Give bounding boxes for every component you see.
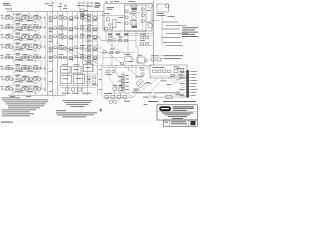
ground row 2 input [13, 31, 15, 33]
supply resistor R86 [163, 70, 166, 73]
resistor R34 [25, 46, 28, 48]
label V29 designator [16, 74, 21, 77]
label row 1 mid value C [80, 14, 85, 17]
label terminal pin 9 left [180, 94, 185, 97]
wire row 3 grid drop [13, 37, 15, 40]
label terminal strip left [177, 67, 185, 70]
label row 3 bias value [27, 38, 33, 41]
resistor R30 [87, 36, 90, 38]
interlock box upper B [119, 87, 123, 90]
wire row 7 upper rail [8, 75, 30, 77]
triode V33 [113, 38, 116, 41]
resistor R66 [88, 20, 91, 22]
wire row 3 mid stub B [74, 34, 76, 37]
wire psu drop x148 [147, 66, 149, 71]
wire output angle [133, 93, 138, 98]
wire switch row [60, 87, 96, 89]
wire ladder rung y15.5 [83, 15, 98, 17]
label row 5 mid value A [59, 53, 64, 56]
wire ladder rung y31.0 [83, 30, 98, 32]
ground row 6 input [13, 72, 15, 74]
label supply extra [179, 74, 184, 77]
wire output drop x107 [106, 99, 108, 101]
label row 5 mid value C [80, 53, 85, 56]
label AC symbol [144, 103, 148, 106]
resistor R69 [88, 35, 91, 37]
label harness net y40 [49, 40, 52, 43]
resistor R14 [33, 26, 36, 28]
label driver left values [105, 12, 110, 15]
ground row 2 cathode [34, 31, 36, 32]
output network resistor R92 [105, 95, 109, 98]
wire vertical net x87.5 [87, 12, 89, 96]
wire row 4 mid stub B [74, 45, 76, 48]
input jack J5 [1, 57, 3, 59]
tube top cap V5 [83, 2, 85, 4]
wire diagonal lead A [56, 42, 98, 64]
wire ladder rung y25.5 [83, 25, 98, 27]
AC interlock tick [143, 96, 148, 99]
label row 7 plate value [23, 75, 28, 78]
label speaker tap 2 [182, 29, 195, 32]
label CR1 above [136, 75, 144, 78]
wire row 8 to bus [44, 87, 46, 91]
terminal pin 3 [189, 77, 191, 79]
wire ladder rung y61.0 [83, 60, 98, 62]
wire row 1 grid drop [13, 18, 15, 21]
capacitor C6 [37, 26, 40, 28]
wire row 7 cathode stub [20, 79, 22, 82]
terminal pin 1 [189, 71, 191, 73]
capacitor C23 bypass [20, 70, 23, 72]
label supply cap [174, 66, 180, 69]
label switch row [62, 92, 70, 95]
output tube V21 (on box edge) [148, 4, 153, 9]
label row 5 input net [6, 54, 11, 57]
wire ground tick x48 [47, 93, 49, 95]
wire row 8 grid drop [13, 89, 15, 92]
power supply chassis box [150, 65, 187, 78]
wire output drop x119 [118, 99, 120, 101]
label row 4 ladder value [93, 49, 98, 52]
junction on harness y70 [51, 69, 54, 72]
wire center-right link v1 [111, 53, 113, 66]
resistor R63 [25, 88, 28, 90]
label harness net y80 [49, 80, 52, 83]
triode V30 [16, 86, 19, 89]
resistor R76 [105, 28, 108, 30]
wire row 5 grid drop [13, 58, 15, 61]
label row 1 input net [6, 14, 11, 17]
speaker tap bar 4 [166, 33, 188, 35]
note arrow to output strip 1 [161, 55, 164, 57]
label V26 designator [16, 63, 21, 66]
triode V25 [16, 66, 19, 69]
triode V13 [54, 35, 57, 38]
title block company line 1 [173, 106, 194, 107]
triode V6 [16, 25, 19, 28]
wire row 7 signal path [5, 78, 47, 80]
resistor R53 [21, 67, 24, 69]
wire row 5 signal path [5, 57, 47, 59]
drawing number footer [1, 122, 13, 123]
label hum balance [125, 53, 131, 56]
wire row 2 lower rail [14, 30, 40, 32]
wire vertical net x67.5 [67, 12, 69, 96]
wire vertical net x72.5 [72, 12, 74, 62]
resistor R65 [125, 16, 128, 18]
wire left feeder x102 [101, 64, 103, 96]
wire row 7 plate riser [28, 76, 30, 79]
label row 1 plate value [23, 14, 28, 17]
title block model line 2 [165, 113, 190, 116]
resistor R31 [94, 36, 97, 38]
note text under power supply A [132, 91, 152, 94]
wire tap bar link [161, 13, 163, 46]
wire driver input rail [100, 15, 125, 17]
wire V1 cap lead [52, 4, 54, 11]
triode V11 [16, 34, 19, 37]
resistor R16 [59, 28, 62, 30]
label row 2 ladder value [93, 29, 98, 32]
line cord plug [166, 95, 172, 98]
label interlock upper [113, 84, 118, 87]
triode V34 [103, 50, 106, 53]
wire ground tick x36 [35, 93, 37, 95]
label row 7 bias value [27, 80, 33, 83]
wire driver-to-output lower [124, 35, 153, 37]
note line 1 [2, 98, 48, 101]
label row 3 mid value B [69, 38, 74, 41]
wire drop from driver box x136 [135, 31, 137, 48]
wire row 4 lower rail [14, 49, 40, 51]
resistor R8 [81, 17, 84, 19]
wire ground tick x12 [11, 93, 13, 95]
wire ladder rung y45.5 [83, 45, 98, 47]
wire drop from driver box x128 [127, 31, 129, 56]
wire row 1 signal path [5, 17, 47, 19]
resistor R32 [10, 46, 13, 48]
resistor R82 [116, 51, 119, 53]
resistor R49 [81, 56, 84, 58]
label pot value [117, 21, 121, 24]
wire lower links [103, 57, 125, 59]
AC plug prong [153, 96, 155, 98]
wire center-right link v2 [125, 62, 127, 66]
label row 2 input net [6, 24, 11, 27]
wire row 3 plate riser [28, 34, 30, 37]
wire row 3 to bus [44, 35, 46, 39]
label row 1 cathode value [15, 19, 20, 22]
capacitor C8 [70, 28, 73, 30]
wire row 3 mid stub C [85, 37, 87, 40]
resistor R13 [25, 26, 28, 28]
label V2 designator [16, 13, 21, 16]
divider resistor R103 [122, 80, 125, 82]
label row 3 plate value [23, 33, 28, 36]
label T4 inside [76, 77, 82, 80]
wire row 3 cathode stub [20, 37, 22, 40]
resistor R21 [10, 36, 13, 38]
wire output drop x125 [124, 99, 126, 101]
filter capacitor C31 [157, 58, 161, 61]
wire V2 cap lead [60, 5, 62, 12]
label row 2 coupling value [34, 24, 39, 27]
wire row 2 to bus [44, 26, 46, 30]
note line 8 [2, 112, 34, 115]
wire pair link rows 1-2 [40, 20, 42, 26]
wire row 3 output stub [40, 34, 42, 37]
wire row 2 plate riser [28, 24, 30, 27]
wire pair link rows 3-4 [40, 40, 42, 46]
wire row 5 mid stub C [85, 58, 87, 61]
junction on harness y50 [51, 49, 54, 52]
wire psu runout A [138, 78, 158, 93]
wire psu drop x108 [107, 66, 109, 69]
label row 4 input net [6, 43, 11, 46]
resistor R61 [141, 8, 144, 10]
capacitor C18 [37, 56, 40, 58]
resistor R45 [33, 56, 36, 58]
label row 4 mid value B [69, 49, 74, 52]
resistor R1 [10, 17, 13, 19]
component group lower [132, 26, 138, 28]
label row 2 cathode value [15, 28, 20, 31]
barrier terminal strip TS1 [186, 70, 189, 98]
wire row 4 to bus [44, 45, 46, 49]
capacitor C2 [37, 17, 40, 19]
speaker tap bar 6 [163, 42, 182, 44]
label row 8 cathode value [15, 90, 20, 93]
label T3 inside [63, 77, 69, 80]
wire row 7 output stub [40, 76, 42, 79]
label CR1 right [146, 81, 150, 84]
resistor R4 [33, 17, 36, 19]
label speaker tap 1 [182, 26, 198, 29]
label tube type 6SC7 [130, 19, 137, 22]
ground row 8 input [13, 92, 15, 94]
resistor R22 [21, 36, 24, 38]
triode V36 [108, 23, 111, 26]
wire row 5 cathode stub [20, 58, 22, 61]
wire mid rail upper [100, 65, 152, 67]
wire title-area circuit stub [150, 96, 189, 98]
terminal pin 6 [189, 86, 191, 88]
label fuse/lamp [157, 12, 164, 15]
wire row 1 mid stub A [61, 18, 63, 21]
triode V9 [54, 26, 57, 29]
wire interlock drop A [114, 90, 116, 95]
supply capacitor C32 [174, 70, 178, 73]
triode V32 [29, 87, 32, 90]
capacitor C27 [6, 88, 9, 90]
resistor R75 [107, 18, 110, 21]
note line 7 [2, 110, 30, 113]
wire row 6 grid drop [13, 69, 15, 72]
wire bus harness D [49, 12, 51, 62]
input jack J4 [1, 47, 3, 49]
triode V10 [75, 26, 78, 29]
wire row 6 lower rail [14, 71, 40, 73]
divider resistor R102 [122, 77, 125, 79]
wire row 2 signal path [5, 27, 47, 29]
label row 6 input net [6, 65, 11, 68]
selector switch housing [95, 2, 99, 6]
label box heading line 2 [107, 8, 113, 11]
manufacturer logo [159, 106, 171, 111]
label V12 designator [16, 32, 21, 35]
divider resistor R101 [122, 75, 125, 77]
wire vertical net x92.5 [92, 12, 94, 72]
wire drop from driver box x106 [105, 31, 107, 41]
resistor R65 [88, 15, 91, 17]
ground row 8 cathode [34, 92, 36, 93]
resistor R78 [108, 39, 111, 41]
resistor R7 [64, 17, 67, 19]
note line above title block [148, 100, 158, 103]
socket pin circle B2 [135, 22, 137, 24]
label tone control heading [45, 2, 50, 5]
divider resistor R104 [122, 83, 125, 85]
resistor R61 [10, 88, 13, 90]
wire vertical net x77.5 [77, 12, 79, 96]
capacitor C13 [6, 46, 9, 48]
wire ground tick x42 [41, 93, 43, 95]
resistor R66 [125, 22, 128, 24]
wire row 4 signal path [5, 46, 47, 48]
socket pin circle B1 [130, 22, 132, 24]
wire row 6 plate riser [28, 65, 30, 68]
resistor R48 [64, 56, 67, 58]
resistor R17 [64, 28, 67, 30]
wire row 1 mid stub B [74, 15, 76, 18]
tube top cap V2 [60, 3, 62, 5]
wire row 1 mid stub C [85, 18, 87, 21]
wire row 5 to bus [44, 56, 46, 60]
label harness net y60 [49, 60, 52, 63]
wire left return riser [45, 14, 47, 92]
resistor R80 [87, 76, 90, 78]
supply resistor R85 [158, 70, 161, 73]
resistor R52 [10, 67, 13, 69]
wire output drop x113 [112, 99, 114, 101]
label feeder ticks [99, 68, 102, 71]
caution line 1 [56, 111, 97, 114]
input jack J1 [1, 18, 3, 20]
resistor R47 [59, 56, 62, 58]
label psu runout B [167, 83, 172, 86]
wire riser x13 [13, 12, 15, 16]
power transformer T4 box [74, 75, 85, 84]
capacitor C20 [70, 56, 73, 58]
bleeder resistor R91 [141, 73, 144, 75]
capacitor C26 bypass [20, 81, 23, 83]
note line 4 [8, 104, 44, 107]
wire bus harness A [47, 12, 49, 96]
pilot lamp I1 [165, 4, 169, 8]
label row 3 input net [6, 33, 11, 36]
resistor R51 [94, 56, 97, 58]
resistor R9 [87, 17, 90, 19]
label row 6 cathode value [15, 69, 20, 72]
wire lower row [100, 52, 134, 54]
wire row 2 upper rail [8, 23, 35, 25]
output transformer T1 box [61, 67, 71, 74]
junction on harness y30 [51, 29, 54, 32]
label row 3 cathode value [15, 38, 20, 41]
wire drop from driver box x112 [111, 31, 113, 53]
ground row 5 input [13, 61, 15, 63]
wire supply internal rail [151, 75, 188, 77]
resistor R44 [25, 56, 28, 58]
wire to terminal pin 3 [176, 78, 186, 80]
triode V20 [16, 55, 19, 58]
tube top cap V1 [52, 2, 54, 4]
wire vertical net x97.5 [97, 12, 99, 96]
wire row 5 middle path [48, 57, 100, 59]
label row 7 cathode value [15, 80, 20, 83]
resistor R62 [141, 14, 144, 16]
note text under power supply B [154, 91, 180, 94]
label speaker strip heading [168, 15, 175, 18]
label revision mark [100, 109, 102, 112]
terminal pin 8 [189, 92, 191, 94]
voltage divider chain wire [122, 72, 124, 93]
label row 2 mid value B [69, 29, 74, 32]
capacitor C1 [6, 17, 9, 19]
note line 3 [6, 102, 46, 105]
revision cell text 1 [165, 121, 169, 124]
resistor R42 [10, 56, 13, 58]
label row 8 input net [6, 85, 11, 88]
wire row 6 cathode stub [20, 69, 22, 72]
terminal circle TP2 [111, 1, 113, 3]
ground row 3 input [13, 40, 15, 42]
output network resistor R93 [111, 95, 115, 98]
tube top cap V6 [87, 2, 89, 4]
resistor R71 [88, 45, 91, 47]
resistor R62 [21, 88, 24, 90]
input jack J3 [1, 37, 3, 39]
wire row 4 mid stub A [61, 48, 63, 51]
resistor R27 [59, 36, 62, 38]
wire row 4 cathode stub [20, 47, 22, 50]
label row 2 plate value [23, 24, 28, 27]
input jack J8 [1, 89, 3, 91]
label terminal pin 7 left [180, 88, 185, 91]
capacitor C28 [37, 88, 40, 90]
label row 1 mid value B [69, 19, 74, 22]
resistor R68 [88, 30, 91, 32]
label row 5 ladder value [93, 58, 98, 61]
wire row 1 to bus [44, 16, 46, 20]
wire to terminal pin 6 [179, 87, 187, 89]
ground row 1 input [13, 21, 15, 23]
wire AC line drop [149, 93, 151, 98]
label mid caps [106, 73, 112, 76]
wire row 6 upper rail [8, 64, 35, 66]
capacitor C30 [132, 10, 136, 12]
wire diagonal lead C [98, 37, 148, 68]
capacitor C15 bypass [20, 49, 23, 51]
title block company line 2 [173, 107, 194, 110]
wire row 1 output stub [40, 15, 42, 18]
input jack J7 [1, 79, 3, 81]
resistor R24 [29, 36, 32, 38]
ground row 1 cathode [34, 21, 36, 22]
wire row 5 lower rail [14, 60, 40, 62]
wire diagonal lead D [96, 44, 139, 77]
